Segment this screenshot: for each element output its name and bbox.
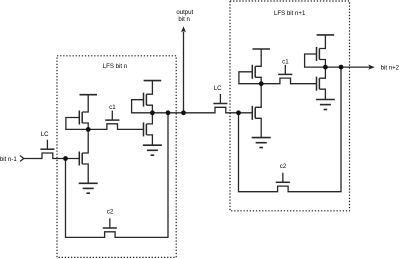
svg-text:LC: LC	[41, 131, 49, 138]
svg-text:bit n+2: bit n+2	[381, 65, 400, 72]
svg-text:c2: c2	[107, 209, 114, 216]
svg-text:c1: c1	[109, 104, 116, 111]
svg-text:bit n-1: bit n-1	[0, 156, 17, 163]
svg-text:bit n: bit n	[178, 16, 190, 23]
svg-text:LFS bit n+1: LFS bit n+1	[274, 10, 306, 17]
svg-text:LFS bit n: LFS bit n	[103, 63, 127, 70]
svg-text:output: output	[176, 9, 193, 16]
